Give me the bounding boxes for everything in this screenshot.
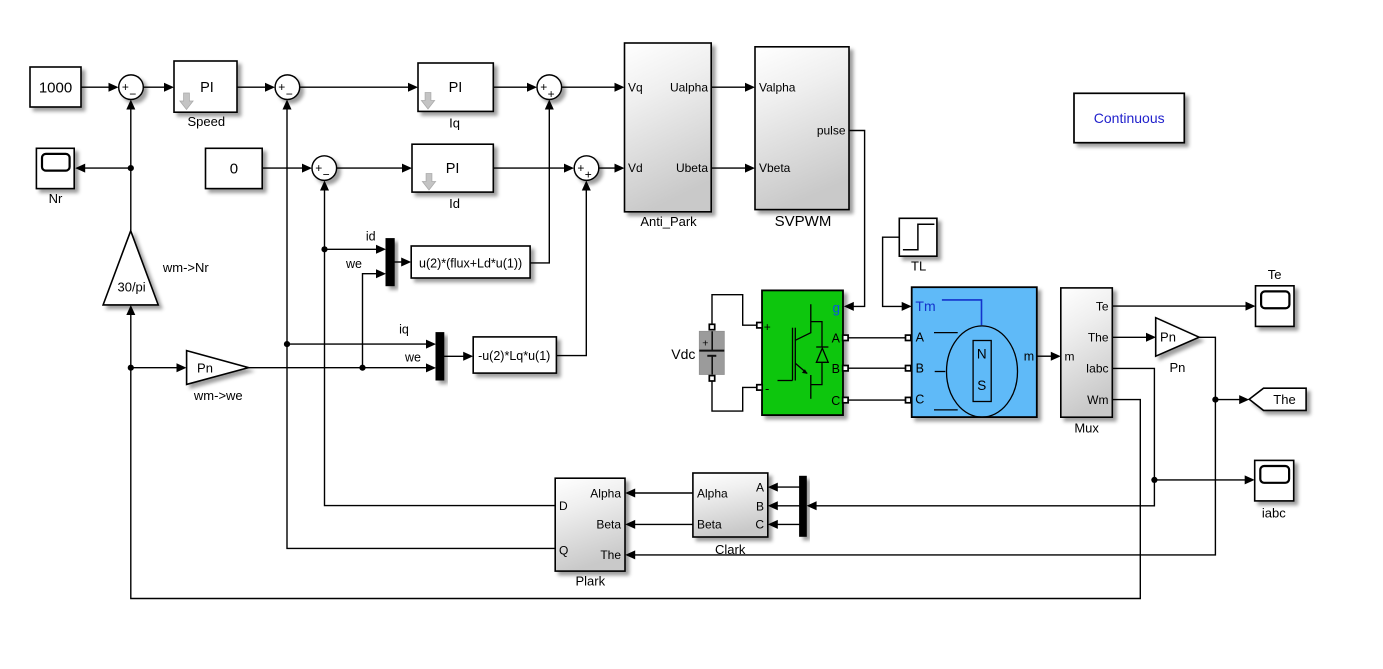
scope Te [1256, 286, 1295, 327]
port square motor C [906, 397, 911, 402]
wire Vdc- to inverter - [712, 381, 757, 411]
svg-text:1000: 1000 [39, 80, 72, 97]
svg-text:Vbeta: Vbeta [759, 161, 791, 175]
svg-text:The: The [1273, 392, 1295, 407]
motor phase stubs [934, 332, 958, 334]
wire pulse to inverter g [844, 131, 865, 311]
port square motor B [906, 366, 911, 371]
svg-text:u(2)*(flux+Ld*u(1)): u(2)*(flux+Ld*u(1)) [419, 256, 522, 270]
svg-text:30/pi: 30/pi [117, 280, 145, 295]
svg-text:PI: PI [449, 80, 463, 96]
port square inverter + [757, 323, 762, 328]
svg-text:+: + [548, 87, 555, 101]
svg-text:PI: PI [200, 80, 214, 96]
wire sum2 to PI Iq [300, 83, 418, 92]
svg-text:+: + [278, 80, 285, 94]
wire demux to Clark A [768, 483, 800, 492]
svg-text:Pn: Pn [1160, 330, 1176, 345]
svg-text:A: A [916, 330, 925, 344]
svg-text:A: A [756, 480, 764, 494]
svg-text:B: B [832, 362, 840, 376]
Fcn block -u(2)*Lq*u(1) [473, 337, 556, 373]
constant block 0 [206, 148, 263, 188]
wire PI Speed to sum2 [237, 83, 275, 92]
subsystem Anti_Park [625, 43, 712, 212]
Fcn block u(2)*(flux+Ld*u(1)) [411, 246, 530, 278]
junction node at Nr branch [128, 165, 134, 171]
svg-text:-: - [765, 381, 769, 396]
sum junction sum4 (id error) [312, 156, 337, 182]
svg-text:+: + [315, 161, 322, 175]
svg-text:Pn: Pn [197, 361, 213, 376]
svg-text:Plark: Plark [575, 574, 605, 589]
wire mux1 to Fcn1 [394, 258, 411, 267]
motor rotor ellipse [947, 326, 1018, 417]
svg-text:Vdc: Vdc [671, 346, 695, 362]
svg-text:D: D [559, 499, 568, 513]
svg-text:PI: PI [446, 161, 460, 177]
wire 1000 to sum1 [81, 83, 119, 92]
junction node id branch [321, 246, 327, 252]
svg-text:N: N [977, 346, 987, 361]
port square inverter C [843, 397, 848, 402]
motor magnet rect [973, 341, 991, 402]
PI controller Id [412, 144, 493, 192]
svg-text:C: C [755, 518, 764, 532]
wire Te to scope [1112, 302, 1255, 311]
wire sum3 to Anti_Park Vq [562, 83, 625, 92]
svg-text:pulse: pulse [817, 124, 846, 138]
wire Fcn2 to sum5 [556, 181, 590, 356]
wire sum1 to PI Speed [143, 83, 174, 92]
gain Pn (The to electrical angle) [1156, 318, 1199, 357]
wire PI Id to sum5 [493, 164, 574, 173]
IGBT inverter block (green) [762, 290, 843, 415]
junction node at wm branch [128, 365, 134, 371]
svg-text:+: + [702, 338, 708, 350]
svg-text:The: The [600, 548, 621, 562]
svg-text:Vd: Vd [628, 161, 643, 175]
port square Vdc bottom [709, 376, 714, 381]
wire phase B inverter to motor [848, 367, 906, 369]
svg-text:Q: Q [559, 543, 568, 557]
svg-text:wm->Nr: wm->Nr [162, 260, 210, 275]
subsystem Clark (Clarke transform) [693, 473, 768, 537]
svg-text:iabc: iabc [1262, 506, 1286, 521]
gain Pn (wm to we) [187, 351, 249, 385]
wire up into 30/pi [126, 305, 135, 368]
junction node iabc branch [1151, 477, 1157, 483]
wire phase C inverter to motor [848, 399, 906, 401]
svg-text:Continuous: Continuous [1094, 110, 1165, 126]
svg-text:Tm: Tm [915, 298, 935, 314]
port square inverter A [843, 335, 848, 340]
demux block (iabc to A,B,C) [800, 476, 807, 536]
wire Ubeta to Vbeta [711, 164, 755, 173]
wire Iabc down to demux [807, 368, 1155, 510]
PI controller Iq [418, 63, 493, 111]
junction node iq branch [284, 341, 290, 347]
svg-text:g: g [833, 301, 841, 316]
wire demux to Clark C [768, 520, 800, 529]
wire demux to Clark B [768, 501, 800, 510]
svg-text:S: S [977, 378, 986, 393]
wire Plark Q output to sum2 (iq feedback) [283, 100, 556, 549]
svg-text:Ualpha: Ualpha [670, 80, 708, 94]
constant block 1000 [30, 67, 81, 107]
svg-text:+: + [540, 80, 547, 94]
subsystem Mux (measurements) [1061, 288, 1113, 417]
wire 0 to sum4 [262, 164, 312, 173]
svg-text:Id: Id [449, 196, 460, 211]
svg-text:C: C [831, 394, 840, 408]
svg-text:Vq: Vq [628, 80, 643, 94]
svg-text:Mux: Mux [1074, 421, 1099, 436]
svg-text:m: m [1024, 350, 1034, 364]
wire Clark Beta to Plark Beta [625, 520, 693, 529]
subsystem SVPWM [755, 47, 849, 210]
svg-text:−: − [323, 168, 330, 182]
svg-text:B: B [756, 499, 764, 513]
svg-text:we: we [404, 351, 421, 365]
wire we branch up to mux1 [363, 269, 387, 368]
svg-text:Beta: Beta [697, 518, 722, 532]
port square Vdc top [709, 324, 714, 329]
svg-text:m: m [1065, 350, 1075, 364]
mux block mux2 (iq,we) [436, 333, 444, 380]
mux block mux1 (id,we) [386, 239, 394, 286]
svg-text:Iabc: Iabc [1086, 362, 1109, 376]
junction node we branch [359, 365, 365, 371]
sum junction sum3 (Vq) [537, 75, 562, 101]
wire mux2 to Fcn2 [444, 352, 473, 361]
svg-text:Anti_Park: Anti_Park [640, 214, 697, 229]
wire The branch to goto tag [1215, 395, 1249, 404]
svg-text:Alpha: Alpha [697, 486, 728, 500]
wire junction to Nr scope [75, 164, 131, 173]
svg-text:−: − [286, 87, 293, 101]
wire Wm feedback to wm node [131, 368, 1141, 599]
svg-text:Pn: Pn [1169, 360, 1185, 375]
wire sum4 to PI Id [337, 164, 412, 173]
svg-text:Wm: Wm [1087, 393, 1108, 407]
svg-text:+: + [585, 168, 592, 182]
gain 30/pi (wm to Nr) [103, 231, 158, 305]
PMSM motor block (blue) [912, 287, 1037, 417]
svg-text:A: A [832, 332, 841, 346]
svg-text:SVPWM: SVPWM [775, 213, 832, 230]
wire phase A inverter to motor [848, 337, 906, 339]
port square inverter B [843, 366, 848, 371]
svg-text:Te: Te [1096, 299, 1109, 313]
scope Nr (flipped) [36, 148, 74, 188]
sum junction sum2 (iq error) [275, 75, 300, 101]
goto tag The [1249, 388, 1306, 410]
svg-text:B: B [916, 362, 924, 376]
svg-text:+: + [122, 80, 129, 94]
svg-text:id: id [366, 230, 376, 244]
svg-text:0: 0 [230, 160, 238, 177]
svg-text:-u(2)*Lq*u(1): -u(2)*Lq*u(1) [478, 349, 550, 363]
svg-text:wm->we: wm->we [193, 388, 243, 403]
wire Plark D output to sum4 (id feedback) [320, 181, 555, 506]
svg-text:Valpha: Valpha [759, 80, 796, 94]
sum junction sum5 (Vd) [574, 156, 599, 182]
svg-text:TL: TL [911, 259, 926, 274]
wire PI Iq to sum3 [493, 83, 537, 92]
wire Clark Alpha to Plark Alpha [625, 489, 693, 498]
svg-text:Speed: Speed [188, 114, 226, 129]
wire sum5 to Anti_Park Vd [599, 164, 625, 173]
DC voltage source Vdc [699, 331, 724, 374]
motor Tm blue lead [942, 300, 982, 325]
svg-text:Ubeta: Ubeta [676, 161, 708, 175]
powergui block Continuous [1074, 93, 1184, 142]
wire Fcn1 to sum3 [530, 100, 554, 263]
PI controller Speed [174, 61, 237, 112]
svg-text:+: + [764, 320, 771, 334]
svg-text:Nr: Nr [49, 191, 63, 206]
svg-text:C: C [915, 393, 924, 407]
wire Pn output down to Plark The [625, 337, 1215, 559]
sum junction sum1 (speed error) [119, 75, 144, 101]
wire id branch to mux1 [325, 245, 387, 254]
wire junction to Pn gain (wm) [131, 363, 187, 372]
junction node The branch [1212, 397, 1218, 403]
svg-text:+: + [577, 161, 584, 175]
wire Vdc+ to inverter + [712, 295, 757, 326]
wire 30/pi output up to sum1 [126, 100, 135, 231]
step block TL (flipped) [899, 218, 937, 256]
wire iabc branch to scope [1154, 475, 1254, 484]
svg-text:Te: Te [1268, 267, 1282, 282]
svg-text:we: we [345, 257, 362, 271]
port square motor A [906, 335, 911, 340]
svg-text:iq: iq [399, 323, 409, 337]
wire The to Pn gain [1112, 333, 1156, 342]
svg-text:Beta: Beta [596, 518, 621, 532]
svg-text:Iq: Iq [449, 116, 460, 131]
wire Ualpha to Valpha [711, 83, 755, 92]
svg-text:Alpha: Alpha [590, 486, 621, 500]
subsystem Plark (Park transform) [555, 478, 625, 571]
wire Pn output (we) to mux2 [249, 363, 437, 372]
scope iabc [1255, 460, 1294, 501]
wire motor m to Mux [1037, 352, 1061, 361]
port square inverter - [757, 385, 762, 390]
wire iq branch to mux2 [287, 340, 436, 349]
wire TL to motor Tm [883, 237, 912, 311]
svg-text:The: The [1088, 331, 1109, 345]
svg-text:Clark: Clark [715, 542, 746, 557]
svg-text:−: − [129, 87, 136, 101]
